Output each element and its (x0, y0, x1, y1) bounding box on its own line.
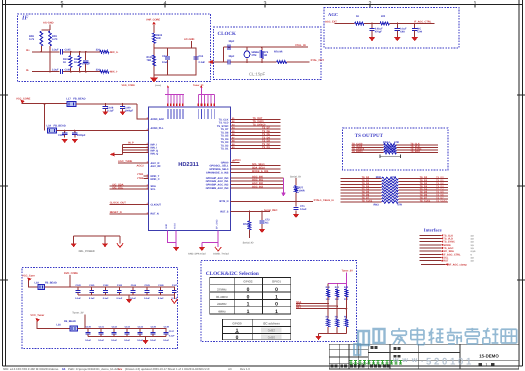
svg-text:C121: C121 (89, 284, 95, 287)
svg-text:DVD_CORE: DVD_CORE (64, 272, 78, 275)
svg-text:Serial_IO: Serial_IO (290, 175, 301, 178)
svg-text:GPIO0: GPIO0 (233, 159, 241, 162)
svg-text:L19: L19 (47, 125, 52, 128)
svg-text:15-DEMO: 15-DEMO (479, 353, 499, 358)
svg-text:FB_BEAD: FB_BEAD (45, 281, 57, 284)
wire gnd stub row1a (128, 295, 130, 299)
wire SAW vertical (153, 44, 155, 78)
wire ts data row 9 (341, 201, 382, 203)
junction row1 (44, 103, 46, 105)
ground c110 (62, 139, 68, 143)
capacitor C03 inside (167, 48, 169, 56)
svg-text:RF_AGC_clamp: RF_AGC_clamp (448, 263, 467, 266)
svg-text:C130: C130 (86, 326, 92, 329)
wire rst drop 1b (248, 230, 250, 238)
svg-text:AGC: AGC (328, 12, 338, 17)
svg-text:1M: 1M (264, 54, 267, 57)
svg-text:RST: RST (443, 260, 448, 263)
resistor pulldn 2 (345, 319, 348, 327)
wire pullup low 1 (336, 327, 338, 334)
wire BT long (230, 201, 313, 203)
junction dots IF (40, 51, 42, 53)
svg-text:60R: 60R (156, 37, 161, 40)
arrow clock left (208, 60, 213, 64)
svg-text:0.1uF: 0.1uF (158, 297, 164, 300)
svg-text:C110: C110 (58, 134, 64, 137)
svg-text:(core): (core) (155, 84, 161, 87)
capacitor bank1 C127 (173, 287, 175, 291)
ground bank1 a (126, 299, 132, 303)
wire gnd stub row2 (145, 337, 147, 340)
svg-text:MIX_I+: MIX_I+ (110, 51, 119, 54)
wire interface 6 (420, 250, 441, 252)
arrow IN left (110, 152, 115, 156)
ground serial (293, 214, 299, 218)
svg-text:0.1uF: 0.1uF (98, 339, 104, 342)
svg-text:Serial_IO: Serial_IO (243, 242, 254, 245)
wire ts data row 4 (341, 186, 382, 188)
svg-text:GPIOBIN_AGC_IN3: GPIOBIN_AGC_IN3 (206, 187, 229, 190)
svg-text:GPIO2: GPIO2 (243, 280, 253, 284)
svg-text:Rev 1.0: Rev 1.0 (240, 367, 250, 371)
capacitor C97 shunt (371, 24, 373, 29)
ground c109 (119, 111, 125, 115)
wire AC-GND stub (191, 41, 193, 48)
svg-text:(Drawn 4.0) updated 2003-10-: (Drawn 4.0) updated 2003-10-17 Sheet 1 o… (125, 367, 210, 371)
crystal Y1 (246, 47, 248, 50)
wire agc arrow stub (210, 61, 224, 63)
AGC block box (324, 8, 459, 49)
ground rst (259, 229, 265, 233)
svg-text:0.1uF: 0.1uF (111, 339, 117, 342)
wire tuner3v drop (84, 314, 86, 328)
wire interface 5 (420, 247, 441, 249)
svg-text:0.1uF: 0.1uF (103, 297, 109, 300)
svg-text:RST_N: RST_N (151, 213, 159, 216)
table i2c address (223, 319, 291, 340)
capacitor bank2 C136 (165, 329, 167, 333)
svg-text:TS_CLK1: TS_CLK1 (420, 199, 431, 202)
capacitor C109 shunt (122, 104, 124, 107)
svg-text:FB_BEAD: FB_BEAD (54, 125, 66, 128)
capacitor C31 series top (227, 45, 229, 50)
svg-text:220: 220 (96, 68, 101, 71)
wire ts data row 1 (341, 178, 382, 180)
wire rst drop 1 (248, 212, 250, 222)
svg-text:30.4MHz: 30.4MHz (216, 295, 229, 299)
svg-text:AGC_IN3: AGC_IN3 (252, 186, 263, 189)
wire ts data row 7 (341, 195, 382, 197)
capacitor bank2 C131 (100, 329, 102, 333)
svg-text:AVDD_PLL: AVDD_PLL (151, 127, 164, 130)
capacitor bank1 C125 (146, 287, 148, 291)
svg-text:0.1uF: 0.1uF (163, 339, 169, 342)
ferrite bead L16 (70, 326, 78, 331)
svg-text:4.7K: 4.7K (52, 38, 58, 41)
svg-text:C132: C132 (112, 326, 118, 329)
wire avdd row2 (57, 130, 149, 132)
svg-text:0.1uF: 0.1uF (117, 297, 123, 300)
wire agc main 1 (335, 23, 355, 25)
resistor pullup R40 (327, 284, 329, 289)
svg-text:NC: NC (344, 316, 348, 319)
svg-text:0.1uF: 0.1uF (144, 297, 150, 300)
svg-text:R78: R78 (243, 223, 248, 226)
svg-text:C122: C122 (103, 284, 109, 287)
svg-text:Serial_REC: Serial_REC (264, 209, 278, 212)
svg-text:XTAL_OUT: XTAL_OUT (311, 59, 325, 62)
capacitor bank1 C123 (118, 287, 120, 291)
wires MODE stubs (144, 175, 149, 177)
capacitor bank1 C126 (160, 287, 162, 291)
resistor R104 series (100, 70, 109, 73)
capacitor C99 shunt (414, 24, 416, 29)
svg-text:GPIO1: GPIO1 (272, 280, 282, 284)
wire pullup mid 1 (336, 297, 338, 319)
wire row2 feed (37, 322, 70, 329)
wire ts data row 5 (341, 189, 382, 191)
pin names comb2 (197, 109, 199, 119)
svg-text:33pF: 33pF (229, 40, 235, 43)
svg-text:C134: C134 (138, 326, 144, 329)
selection block box (201, 261, 357, 342)
wire pullup top bus (328, 283, 346, 285)
page number (479, 363, 482, 366)
pin names comb1 (167, 109, 169, 119)
svg-text:220: 220 (96, 49, 101, 52)
wire ts out row 4 (352, 152, 384, 154)
svg-text:5 2 0 1 0 1: 5 2 0 1 0 1 (426, 357, 472, 368)
svg-text:L18: L18 (35, 281, 40, 284)
junction dots agc (371, 23, 373, 25)
wire pullup low 0 (327, 327, 329, 334)
svg-text:0.1uF: 0.1uF (85, 339, 91, 342)
svg-text:AGC_RF: AGC_RF (151, 165, 162, 168)
svg-text:L16: L16 (56, 324, 61, 327)
svg-text:CL:15pF: CL:15pF (249, 72, 266, 77)
svg-text:XTAL1_Clock_in: XTAL1_Clock_in (314, 199, 335, 202)
svg-text:24MHz: 24MHz (217, 302, 227, 306)
ground agc 1 (369, 37, 375, 41)
CLOCK block box (214, 27, 321, 80)
svg-text:10uF: 10uF (162, 61, 168, 64)
capacitor C32 series bottom (227, 59, 229, 64)
svg-text:33pF: 33pF (229, 55, 235, 58)
svg-text:MOD_C: MOD_C (151, 178, 160, 181)
wire interface 1 (420, 234, 441, 236)
wire pullup mid 0 (327, 297, 329, 319)
wire gnd stub pullup (318, 334, 320, 336)
svg-text:b5: b5 (62, 367, 66, 371)
svg-text:VCC_Core: VCC_Core (22, 274, 35, 277)
svg-text:470pF: 470pF (375, 31, 383, 34)
svg-text:1K: 1K (74, 61, 77, 64)
svg-text:0xB0: 0xB0 (268, 335, 275, 339)
wire interface 4 (420, 244, 441, 246)
wire pullup mid 2 (345, 297, 347, 319)
svg-text:XTAL_IN: XTAL_IN (295, 44, 306, 47)
resistor R75 shunt (261, 47, 263, 50)
svg-text:27MHz: 27MHz (217, 287, 227, 291)
svg-text:4MHz: 4MHz (218, 309, 226, 313)
svg-text:220: 220 (381, 15, 386, 18)
svg-text:0.1uF: 0.1uF (107, 109, 114, 112)
rn1 dimension marker (380, 155, 401, 158)
resistor R78 (248, 221, 251, 230)
svg-text:0.1uF: 0.1uF (124, 339, 130, 342)
resistor R96 1K (355, 22, 364, 25)
green site text (350, 361, 403, 365)
svg-text:47R: 47R (397, 204, 402, 207)
wires GPIO group C (230, 177, 283, 179)
svg-text:NC: NC (335, 316, 339, 319)
wire pullup feed (345, 273, 347, 284)
wire interface 8 (420, 257, 441, 259)
svg-text:50D: e4.5 10/17/03 2:45P M:\H: 50D: e4.5 10/17/03 2:45P M:\HD2311\demo (3, 367, 59, 371)
svg-text:TS_CLK1: TS_CLK1 (436, 199, 447, 202)
svg-text:100R: 100R (299, 189, 305, 192)
svg-text:AVDD_ADC: AVDD_ADC (151, 118, 165, 121)
svg-text:C133: C133 (125, 326, 131, 329)
svg-text:RST_S: RST_S (220, 210, 228, 213)
wire I2C_SDA (110, 185, 149, 187)
wire bottom pin1 (168, 231, 177, 243)
svg-text:R41: R41 (335, 286, 340, 289)
IF block box (18, 14, 211, 82)
resistor R105 inside (153, 55, 156, 66)
svg-text:C120: C120 (76, 284, 82, 287)
resistor R76 series (277, 61, 287, 64)
wire CLOCK_OUT (110, 203, 149, 205)
svg-text:MIX_I-: MIX_I- (110, 71, 118, 74)
resistor R77 100R (295, 186, 298, 193)
svg-text:2,3,5: 2,3,5 (471, 250, 477, 253)
wire AGC_TUNE (118, 162, 149, 164)
power flag VHF (152, 22, 156, 25)
capacitor bank1 C122 (105, 287, 107, 291)
ground trident bus (74, 235, 120, 237)
resistor pullup R41 (336, 284, 338, 289)
wire row1 bottom bus (78, 294, 174, 296)
wire bottom pin2 (175, 231, 177, 248)
svg-text:C04: C04 (199, 55, 204, 58)
junction bt serial (295, 201, 297, 203)
svg-text:NC: NC (326, 316, 330, 319)
svg-text:FB_BEAD: FB_BEAD (64, 320, 76, 323)
wire RESET_N (110, 213, 149, 215)
wire ts data row 3 (341, 183, 382, 185)
capacitor C106 series (60, 69, 62, 74)
wire comb2 bus (198, 94, 214, 96)
capacitor C107 shunt (85, 52, 87, 60)
svg-text:R76 0R: R76 0R (274, 50, 283, 53)
svg-text:Tuner_3V: Tuner_3V (342, 270, 354, 273)
wire interface 9 (420, 260, 441, 262)
svg-text:#TH2: #TH2 (137, 177, 144, 180)
svg-text:27M: 27M (252, 54, 257, 57)
junction rst (249, 211, 251, 213)
svg-text:C123: C123 (117, 284, 123, 287)
wire xtal left vertical (223, 47, 225, 62)
ground ic bottom 3 (215, 247, 221, 251)
capacitor C110 shunt (64, 131, 66, 133)
wire xtal top (224, 46, 228, 48)
table clock selection (210, 278, 291, 315)
svg-text:SCL: SCL (151, 188, 156, 191)
ferrite bead L18 (38, 284, 45, 289)
svg-text:w w w .: w w w . (392, 357, 424, 364)
arrow bus down (281, 193, 285, 197)
resistor R103 series (100, 50, 109, 53)
svg-text:GND: GND (165, 224, 168, 229)
svg-text:VCC_CORE: VCC_CORE (16, 97, 31, 100)
ferrite bead L17 (67, 101, 76, 106)
capacitor bank1 C121 (91, 287, 93, 291)
wire avdd bend (137, 104, 149, 119)
wire comb1 bus (165, 94, 184, 96)
ground bank2 (142, 340, 148, 344)
pins comb2 (197, 95, 199, 107)
capacitor C105 series (60, 49, 62, 54)
svg-text:2.2uF: 2.2uF (52, 68, 59, 71)
svg-text:AC-GND: AC-GND (184, 38, 195, 41)
svg-text:HD2311: HD2311 (178, 162, 199, 168)
watermark logo square 2 (374, 329, 385, 343)
svg-text:0.1uF: 0.1uF (89, 297, 95, 300)
resistor R101 shunt (70, 52, 72, 56)
power flag row2 (36, 318, 40, 322)
svg-text:CLOCK: CLOCK (218, 31, 236, 37)
watermark characters (392, 328, 406, 345)
junction row2 (64, 130, 66, 132)
wire agc main 3 (389, 23, 434, 25)
capacitor bank1 C124 (132, 287, 134, 291)
svg-text:EP_GND: EP_GND (215, 219, 218, 229)
svg-text:1000pF: 1000pF (125, 109, 134, 112)
svg-text:C126: C126 (158, 284, 164, 287)
ground trident 2 (102, 243, 108, 247)
bus GPIO C merge (283, 178, 285, 193)
svg-text:GPIOMODE_A_INS: GPIOMODE_A_INS (206, 171, 229, 174)
wire interface 3 (420, 241, 441, 243)
capacitor bank2 C135 (152, 329, 154, 333)
wires TS group A (230, 118, 280, 120)
wire ts data row 8 (341, 198, 382, 200)
wire row1 bus (45, 286, 175, 288)
wire rst drop 2 (261, 212, 263, 221)
svg-text:TS OUTPUT: TS OUTPUT (355, 133, 384, 139)
svg-text:C131: C131 (99, 326, 105, 329)
resistor R08 (40, 31, 43, 46)
svg-text:GPIO0: GPIO0 (232, 322, 242, 326)
wire avdd row1 (22, 103, 67, 105)
svg-text:TS_ERR0: TS_ERR0 (352, 150, 363, 153)
wire pullup bottom bus (319, 333, 347, 335)
power flag row1 (27, 277, 31, 281)
title block frame (329, 344, 519, 369)
wire ts out row 3 (352, 149, 384, 151)
wire row2 bottom bus (88, 336, 166, 338)
svg-text:1000pF: 1000pF (82, 63, 91, 66)
wire interface 7 (420, 253, 441, 255)
svg-text:C125: C125 (145, 284, 151, 287)
power flag VCC_CORE (21, 100, 25, 104)
svg-text:C135: C135 (151, 326, 157, 329)
title block grid (338, 344, 340, 369)
wire xtal bottom (224, 61, 228, 63)
capacitor C108 shunt (104, 104, 106, 107)
svg-text:1000pF: 1000pF (77, 134, 86, 137)
svg-text:R40: R40 (326, 286, 331, 289)
capacitor bank2 C133 (126, 329, 128, 333)
ground ic bottom 1 (173, 247, 179, 251)
svg-text:rev: rev (118, 367, 123, 371)
title block cell texts (394, 347, 397, 350)
svg-text:IF: IF (21, 16, 28, 22)
svg-text:0.1uF: 0.1uF (169, 334, 175, 337)
resistor R09 (49, 31, 52, 46)
svg-text:AGND_T-triad: AGND_T-triad (213, 253, 229, 256)
watermark logo tail (354, 344, 361, 355)
svg-text:Interface: Interface (424, 228, 442, 233)
ground pullup (315, 336, 321, 340)
svg-text:0.1uF: 0.1uF (75, 297, 81, 300)
wire xtal bottom right (287, 61, 310, 63)
svg-text:Tuner_3V: Tuner_3V (72, 311, 84, 314)
wire bottom pin3 (202, 231, 218, 243)
svg-text:TS_CLK1: TS_CLK1 (362, 199, 373, 202)
svg-text:C98: C98 (400, 31, 405, 34)
svg-text:AVSS: AVSS (173, 223, 176, 229)
capacitor C98 shunt (396, 24, 398, 29)
wire DVDD drop (69, 275, 71, 287)
svg-text:A3: A3 (228, 367, 232, 371)
svg-text:IF-: IF- (26, 69, 29, 72)
wire agc main 2 (364, 23, 380, 25)
svg-text:AGC2: AGC2 (137, 164, 145, 167)
wire avdd row1b (76, 103, 137, 105)
pins comb1 (167, 95, 169, 107)
wire ts out row 1 (352, 144, 384, 146)
ground agc 3 (412, 37, 418, 41)
capacitor C111 shunt (74, 131, 76, 133)
resistor pullup R42 (345, 284, 347, 289)
wire IN common (111, 153, 123, 155)
SAW filter U2 box (154, 48, 196, 75)
wire IF+ line (32, 51, 60, 53)
wire interface 10 (421, 263, 446, 265)
capacitor C72 (259, 220, 264, 222)
wire RST_S row (230, 211, 270, 213)
title block row labels (331, 365, 334, 368)
wire SAW supply (153, 25, 155, 33)
svg-text:C99: C99 (417, 31, 422, 34)
svg-text:VCC_Tuner: VCC_Tuner (30, 314, 44, 317)
svg-text:VHF_CORE: VHF_CORE (146, 19, 160, 22)
wire row1 feed (29, 281, 38, 288)
svg-text:0xB2: 0xB2 (268, 329, 275, 333)
ground trident 3 (117, 243, 123, 247)
resistor pulldn 1 (336, 319, 339, 327)
power filter block box (22, 268, 178, 349)
svg-text:AG-GND: AG-GND (43, 22, 54, 25)
svg-text:2.2uF: 2.2uF (52, 49, 59, 52)
svg-text:IN_P: IN_P (128, 141, 134, 144)
wire ts data row 2 (341, 181, 382, 183)
wire resistor legs (40, 46, 42, 52)
wire R104 stub (95, 71, 100, 73)
wire IF- line (32, 71, 60, 73)
